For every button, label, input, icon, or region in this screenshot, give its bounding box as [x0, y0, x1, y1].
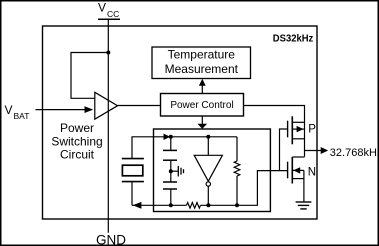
capacitor C2 [163, 182, 177, 205]
node bottom rail / resistor R1 [235, 203, 239, 207]
wire VCC vertical to GND [107, 19, 109, 232]
arrowhead to crystal bottom [133, 202, 142, 209]
ground under N MOSFET [296, 179, 312, 209]
wire buffer output to Power Control [118, 105, 161, 107]
node bottom rail / caps [169, 203, 173, 207]
svg-text:CC: CC [107, 9, 119, 19]
block Temperature Measurement [152, 47, 251, 79]
arrowhead VBAT into buffer [85, 106, 94, 113]
wire gate tie P to N [280, 129, 288, 171]
wire output node [305, 150, 322, 152]
wire Power Control right to output driver supply [244, 106, 305, 157]
resistor R2 series in bottom rail [187, 203, 201, 209]
svg-text:Power: Power [60, 121, 94, 135]
transistor P-channel MOSFET [288, 116, 305, 144]
capacitor C1 [163, 137, 177, 182]
inverter amplifier [194, 137, 222, 206]
crystal Y1 [122, 159, 144, 182]
svg-text:N: N [308, 166, 316, 178]
ground rotated at cap midpoint [171, 166, 184, 177]
node VCC tap junction [106, 51, 110, 55]
buffer U1 power switch triangle [95, 92, 118, 119]
wire oscillator bottom rail left [132, 204, 187, 206]
block Power Control [161, 94, 244, 117]
arrowhead down into oscillator box [198, 124, 208, 129]
arrowhead output [321, 147, 329, 154]
pin label VCC [98, 1, 119, 20]
svg-text:BAT: BAT [14, 111, 30, 121]
pin label VBAT [5, 103, 30, 121]
svg-text:DS32kHz: DS32kHz [273, 32, 314, 44]
wire oscillator top rail [154, 136, 238, 138]
crystal Y1 bottom lead [131, 182, 133, 206]
svg-text:Circuit: Circuit [60, 148, 95, 162]
crystal Y1 top lead [132, 137, 154, 159]
svg-text:P: P [308, 123, 316, 135]
wire VCC feedback loop to power switch [71, 53, 108, 99]
svg-text:Switching: Switching [51, 134, 102, 148]
svg-text:GND: GND [96, 232, 126, 246]
node between caps [169, 169, 173, 173]
svg-text:Power Control: Power Control [170, 100, 233, 111]
wire Power Control to Temperature Measurement [201, 85, 203, 94]
arrowhead up into Temperature Measurement [199, 79, 206, 86]
svg-text:32.768kHz: 32.768kHz [330, 147, 379, 159]
svg-text:Temperature: Temperature [168, 48, 236, 62]
node top rail / caps [169, 135, 173, 139]
oscillator box [154, 129, 271, 212]
svg-text:V: V [98, 1, 106, 15]
svg-text:Measurement: Measurement [165, 62, 239, 76]
wire VBAT input [36, 109, 86, 111]
transistor N-channel MOSFET [288, 157, 305, 184]
wire oscillator bottom rail right [201, 171, 288, 206]
resistor R1 vertical feedback [234, 137, 240, 206]
wire Power Control down to oscillator [201, 116, 203, 125]
label Power Switching Circuit [51, 121, 102, 162]
node top rail / inverter input [206, 135, 210, 139]
node bottom rail / inverter output [206, 203, 210, 207]
VCC pin bar [98, 18, 120, 20]
svg-text:V: V [5, 103, 13, 117]
chip box DS32kHz [43, 26, 318, 219]
arrowhead on top rail [164, 134, 171, 140]
